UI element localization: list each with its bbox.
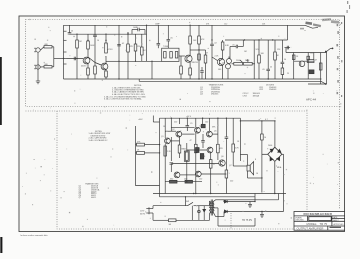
amp right edge <box>239 118 241 161</box>
wire Q2 out <box>106 60 119 62</box>
wire to bridge top <box>240 121 275 193</box>
cell divider date <box>331 216 333 221</box>
resistor R10 collector Q3 <box>189 25 192 53</box>
filter cap C111 <box>260 212 264 219</box>
dashed margin rect top section <box>26 20 340 107</box>
svg-text:560: 560 <box>310 53 313 55</box>
wire amp h8 <box>201 173 226 175</box>
svg-text:60 HZ: 60 HZ <box>140 213 146 215</box>
wire amp h3 <box>182 133 195 135</box>
svg-text:2000: 2000 <box>268 145 272 147</box>
svg-text:MDA: MDA <box>277 166 282 169</box>
transistor Q106 <box>207 147 213 153</box>
resistor R5 emitter Q1 <box>87 66 90 79</box>
svg-text:Q7: Q7 <box>229 165 232 167</box>
dashed psu segment <box>230 213 232 229</box>
svg-text:1: 1 <box>229 173 230 175</box>
signal return wire <box>139 79 326 84</box>
resistor R105 <box>209 153 212 194</box>
wire bus bend <box>305 25 318 28</box>
title block frame <box>294 212 345 231</box>
svg-text:330: 330 <box>170 179 173 181</box>
cell inner box <box>309 217 331 221</box>
scan speckle <box>22 19 341 227</box>
cell divider bottom row <box>327 226 329 230</box>
transistor Q101 <box>165 138 171 144</box>
svg-text:1M: 1M <box>79 41 82 43</box>
wire amp h2 <box>171 126 194 128</box>
capacitor C14 leg <box>157 25 161 48</box>
pot VR2 <box>226 64 231 79</box>
svg-text:20: 20 <box>71 31 73 33</box>
diodes list top <box>243 85 278 98</box>
amp top bus <box>160 117 241 119</box>
output stage top line <box>286 48 327 53</box>
svg-text:8: 8 <box>255 159 256 161</box>
transistor Q102 <box>176 131 182 137</box>
tone network box <box>162 48 179 61</box>
transistor Q3 <box>185 53 192 65</box>
PSU bottom wire + fuse F1 <box>149 213 210 222</box>
svg-text:Q1: Q1 <box>161 136 164 138</box>
capacitor C13 dark box <box>309 70 314 74</box>
wire amp h1 <box>165 130 176 132</box>
dashed rect bottom section <box>26 111 308 212</box>
resistor R3 <box>67 34 84 79</box>
transformer T1 <box>210 200 215 216</box>
wire feedback bottom <box>136 185 160 187</box>
svg-text:470: 470 <box>197 148 200 150</box>
svg-text:Q2: Q2 <box>172 129 175 131</box>
svg-text:.02: .02 <box>122 43 125 45</box>
transistor Q4 <box>217 56 224 79</box>
resistor R108 <box>232 118 235 166</box>
svg-text:40411: 40411 <box>91 197 96 199</box>
svg-text:Q5: Q5 <box>214 131 217 133</box>
wire mid verticals <box>254 40 260 79</box>
capacitor C11 leg <box>281 40 285 79</box>
diode CR102 <box>224 210 283 213</box>
resistor R4 collector Q1 <box>87 34 90 55</box>
capacitor C8 leg <box>210 25 217 79</box>
row divider 2 <box>294 220 345 222</box>
resistor R102 <box>136 152 160 155</box>
lamp DS1 <box>191 206 193 221</box>
svg-text:DATE: DATE <box>333 216 338 219</box>
svg-text:.05: .05 <box>262 69 265 71</box>
resistor R1 <box>44 46 54 48</box>
transistor Q5 <box>299 61 305 67</box>
svg-text:BIAS: BIAS <box>182 148 187 151</box>
transistors list bottom <box>79 182 101 199</box>
wire amp h4 <box>170 140 179 142</box>
svg-text:C9: C9 <box>190 123 192 125</box>
svg-text:+40 V: +40 V <box>186 116 192 118</box>
svg-text:4.7: 4.7 <box>265 119 268 121</box>
svg-text:100K: 100K <box>90 45 95 47</box>
capacitor C10 leg <box>266 40 270 79</box>
cell divider date split <box>332 218 345 220</box>
svg-text:100: 100 <box>184 178 187 180</box>
resistor R18 <box>307 53 310 80</box>
svg-text:47: 47 <box>206 53 208 55</box>
row divider 1 <box>294 215 345 217</box>
wire amp h6 <box>171 163 219 165</box>
bottom bus <box>64 78 322 80</box>
svg-text:100: 100 <box>205 122 208 124</box>
bus top labels <box>155 23 266 25</box>
resistor R12 leg <box>198 25 201 79</box>
resistor R6 collector Q2 <box>105 34 108 61</box>
transistor Q105 <box>207 131 213 137</box>
svg-text:25: 25 <box>270 67 272 69</box>
electrolytic C5 <box>132 28 145 35</box>
resistor R11 emitter Q3 <box>189 65 192 80</box>
input jack J2 <box>34 65 44 69</box>
svg-text:40233: 40233 <box>81 65 86 67</box>
wire psu feed <box>160 194 256 206</box>
svg-text:APC-44: APC-44 <box>306 97 317 101</box>
resistor R106 <box>217 118 220 160</box>
capacitor C2 coupling <box>74 57 75 61</box>
svg-text:10MF: 10MF <box>133 27 139 29</box>
capacitor C15 bars <box>200 67 204 79</box>
capacitor C12 stubs <box>285 46 291 50</box>
varistor RV1 <box>203 206 206 221</box>
wire tone out <box>179 56 185 79</box>
svg-text:TR 75 PS: TR 75 PS <box>242 220 252 222</box>
transistor Q108 <box>219 160 225 166</box>
svg-text:470: 470 <box>220 148 223 150</box>
leg L1 <box>164 118 167 193</box>
capacitor C101 <box>170 163 174 172</box>
transistor Q103 <box>174 172 180 178</box>
resistor R7 <box>127 34 130 79</box>
row divider 3 <box>294 225 345 227</box>
resistor R19 horizontal <box>294 60 314 63</box>
transistor Q104 <box>195 127 201 133</box>
resistor R101 <box>136 143 160 146</box>
B+ vertical right <box>283 154 285 211</box>
svg-text:lw free servlce manuals lnfo: lw free servlce manuals lnfo <box>21 234 49 237</box>
cell divider model row <box>331 221 333 226</box>
capacitor C6 leg <box>167 25 171 48</box>
wire amp h9 <box>212 133 218 135</box>
resistor R17 <box>292 53 295 80</box>
svg-text:Q7: Q7 <box>79 197 82 199</box>
junction dots top <box>63 25 334 85</box>
bridge rectifier CR100 <box>262 147 284 193</box>
page sheet <box>19 16 345 232</box>
cell divider drawn <box>307 216 309 221</box>
svg-text:SW: SW <box>186 201 189 203</box>
rail B3 <box>225 39 288 41</box>
scan smudge top right <box>347 1 351 13</box>
wire bus3 feed <box>287 25 289 40</box>
resistor R5b <box>94 63 97 80</box>
wire input junction <box>54 47 64 67</box>
svg-text:.05: .05 <box>232 44 235 46</box>
resistor R2 <box>44 66 54 68</box>
lower line amp <box>165 180 202 183</box>
output right vertical <box>308 48 333 84</box>
speaker SP1 <box>247 162 262 178</box>
resistor R6b emitter Q2 <box>105 71 108 79</box>
B+ riser 2 <box>224 194 279 200</box>
amp bottom bus <box>153 193 286 195</box>
resistor R16 leg <box>274 40 277 79</box>
capacitor C102 <box>186 118 190 131</box>
svg-text:250K: 250K <box>245 60 250 62</box>
svg-text:TONE: TONE <box>163 46 169 48</box>
resistor R13 collector Q4 <box>221 40 224 56</box>
B+ feed stub <box>153 116 159 123</box>
component micro labels bottom <box>137 116 282 226</box>
capacitor C103 <box>201 134 205 148</box>
transistor Q107 <box>195 171 201 177</box>
resistor R20 <box>319 53 322 85</box>
secondary wires <box>214 200 255 226</box>
scan edge streak left middle <box>0 57 2 125</box>
svg-text:1M: 1M <box>244 51 247 53</box>
scan edge streak left bottom <box>0 237 2 253</box>
svg-text:Q4: Q4 <box>200 126 203 128</box>
input jack J1 <box>34 47 44 52</box>
transistor Q2 <box>101 61 108 71</box>
wire amp out <box>233 155 247 167</box>
svg-text:220: 220 <box>174 122 177 124</box>
svg-text:47: 47 <box>315 60 317 62</box>
svg-text:SHEET: SHEET <box>333 220 340 222</box>
component micro labels top <box>45 27 318 75</box>
svg-text:250K: 250K <box>236 60 241 62</box>
svg-text:VOL: VOL <box>256 49 260 51</box>
svg-text:Q4: Q4 <box>222 63 225 65</box>
svg-text:6. ALL CONTROLS AT MIN. NO SIG: 6. ALL CONTROLS AT MIN. NO SIGNAL <box>104 98 143 101</box>
leg L3 <box>203 118 210 131</box>
svg-text:1N34A: 1N34A <box>253 95 260 98</box>
signature mark <box>330 226 342 228</box>
svg-text:10: 10 <box>264 137 266 139</box>
capacitor C3 leg <box>88 25 97 62</box>
input coupling vertical <box>135 126 137 186</box>
filter cap C110 <box>248 202 252 209</box>
dark caps cluster <box>196 124 206 159</box>
pot VR1 <box>227 57 232 64</box>
wire stage2 out <box>119 25 162 79</box>
svg-text:RICKENBACKER: RICKENBACKER <box>304 212 333 216</box>
resistor R107 <box>225 118 229 193</box>
PSU top wire + switch S1 <box>153 201 210 206</box>
svg-text:25: 25 <box>287 73 289 75</box>
pot R15 <box>244 60 255 66</box>
wire amp h5 <box>187 149 207 151</box>
svg-text:50: 50 <box>284 59 286 61</box>
resistor R9 <box>141 34 144 61</box>
svg-text:16: 16 <box>256 173 258 175</box>
notes text bottom <box>89 131 111 142</box>
capacitor C112 leg <box>198 206 201 221</box>
svg-text:+40V: +40V <box>138 119 143 121</box>
svg-text:1N4003: 1N4003 <box>269 89 277 91</box>
svg-text:117V: 117V <box>140 210 145 212</box>
resistor R104 <box>195 118 198 193</box>
junction dots bottom <box>159 118 276 213</box>
transistors list top <box>200 84 224 96</box>
wire amp h7 <box>180 174 196 176</box>
svg-text:560: 560 <box>218 69 221 71</box>
PSU riser <box>254 194 256 227</box>
wire Q1-Q2 <box>95 63 101 66</box>
svg-text:.05: .05 <box>170 38 173 40</box>
notes text top <box>104 85 146 101</box>
dashed right margin segment <box>339 107 341 210</box>
resistor R8 <box>134 34 137 61</box>
svg-text:C12: C12 <box>224 23 227 25</box>
svg-text:3. ALL VOLTAGES DC: 3. ALL VOLTAGES DC <box>89 139 109 142</box>
amp left edge <box>159 118 161 193</box>
svg-text:.02: .02 <box>214 43 217 45</box>
transistor Q1 <box>83 55 90 66</box>
dashed rect bottom section left/bottom <box>57 111 295 229</box>
scan smudge bus end <box>300 18 339 29</box>
svg-text:Q6: Q6 <box>221 156 224 158</box>
rail B1 <box>70 33 147 35</box>
right margin smudge marks <box>336 22 342 97</box>
pot VR101 box <box>184 143 189 182</box>
PSU plug P1 <box>146 206 153 215</box>
svg-text:40233: 40233 <box>193 62 198 64</box>
resistor R14 <box>232 60 243 65</box>
diode CR101 <box>224 200 255 203</box>
capacitor C9 <box>230 40 243 59</box>
terminal strip bar <box>64 25 67 79</box>
leg L2 <box>170 118 172 161</box>
svg-text:10: 10 <box>97 40 99 42</box>
svg-text:220: 220 <box>230 181 233 183</box>
ground jack sleeve <box>36 53 40 84</box>
capacitor C7 <box>190 50 207 79</box>
top bus <box>64 24 306 26</box>
capacitor C4 leg <box>117 25 121 79</box>
svg-text:47: 47 <box>190 140 192 142</box>
resistor R103 <box>178 118 181 158</box>
svg-text:OUTPUT AMPLIFIER: OUTPUT AMPLIFIER <box>297 227 324 231</box>
svg-text:CHECKED: CHECKED <box>295 220 304 222</box>
svg-text:150: 150 <box>199 179 202 181</box>
wire leg 313 <box>313 53 315 60</box>
svg-text:2N5355: 2N5355 <box>211 94 219 96</box>
capacitor C1 leg <box>68 25 72 34</box>
